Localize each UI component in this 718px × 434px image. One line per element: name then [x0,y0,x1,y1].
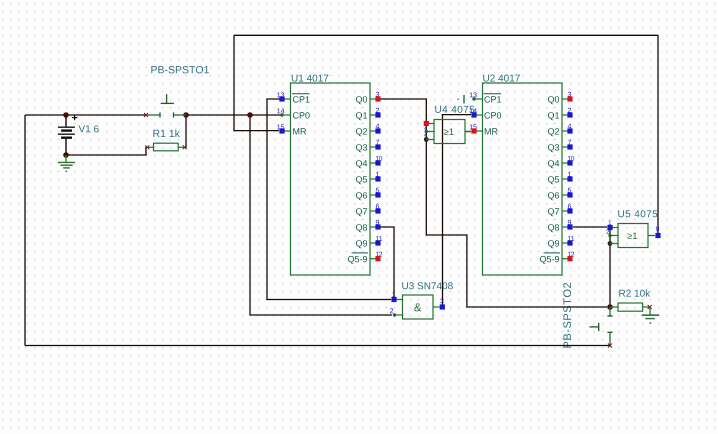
U1 pin number 11 [376,236,382,241]
wire left rail [24,115,26,346]
U1 pin name Q5 [356,176,367,184]
junction R2 / PB2 node [607,304,613,310]
U1 pin 6 state square [375,208,380,213]
U2 pin 7 Q3 stub [562,146,568,148]
wire CP1 U1 to U3 pin1 [267,99,391,300]
ground GND2 [642,307,660,324]
U1 pin 14 tip dot [280,113,283,116]
label U3 SN7408 [402,282,452,289]
U1 pin 1 Q5 stub [370,178,376,180]
U3 pin number 3 [440,298,443,303]
junction node A on rail [247,112,253,118]
U5 pin number 9 [656,226,659,231]
U2 pin 10 Q4 stub [562,162,568,164]
U2 pin 10 state square [567,160,572,165]
U1 pin 15 MR stub [282,130,291,132]
U1 pin name Q6 [356,192,367,200]
U1 pin name CP0 [293,112,310,118]
label V1 6 [79,125,99,132]
U2 pin 15 state square [471,128,476,133]
wire U3 output to CP0 U2 [443,115,472,305]
U2 pin number 9 [568,220,571,225]
wire U5 input chain down to R2 node [609,228,611,308]
U2 pin 2 Q1 stub [562,114,568,116]
label U2 4017 [483,75,520,82]
label R2 10k [619,289,650,296]
junction U4 input 3 [424,137,429,142]
U5 pin 1 state square [607,225,612,230]
U2 pin name Q1 [548,112,559,120]
U1 pin 10 state square [375,160,380,165]
label U5 4075 [618,210,657,217]
U1 pin 2 state square [375,112,380,117]
battery V1 [58,115,77,155]
U2 pin name Q8 [548,224,559,232]
label U4 4075 [435,106,474,113]
U2 pin 6 Q7 stub [562,210,568,212]
U2 pin number 13 [470,92,477,97]
label U1 4017 [292,75,329,82]
U2 pin 4 state square [567,128,572,133]
wire switch PB1 to CP0 U1 [186,114,281,116]
U1 pin 13 CP1 stub [282,98,291,100]
U1 pin 2 Q1 stub [370,114,376,116]
label R1 1k [153,129,180,137]
label PB-SPSTO1 [151,66,209,73]
U2 pin number 5 [568,188,571,193]
U2 pin name Q5 [548,176,559,184]
U1 pin 15 state square [279,128,284,133]
U1 pin name CP1 [292,94,310,103]
U1 pin name Q4 [356,160,367,168]
U5 pin number 2 [606,230,609,234]
IC U2 4017 body [483,83,563,275]
U1 pin 14 CP0 stub [282,114,291,116]
U1 pin number 6 [376,204,379,209]
U1 pin 6 Q7 stub [370,210,376,212]
U2 pin 11 state square [567,240,572,245]
U2 pin 7 state square [567,144,572,149]
wire Q8 U1 down to U3 pin1 [380,227,394,297]
U2 pin name CP0 [484,112,501,118]
U1 pin number 4 [376,124,380,129]
U1 pin number 5 [376,188,379,193]
junction U5 input 3 [608,241,613,246]
U2 pin 5 Q6 stub [562,194,568,196]
U3 pin number 1 [392,292,395,297]
U1 pin number 15 [277,124,284,129]
U3 pin 3 state square [440,304,445,309]
wire R1 to switch node [185,115,186,148]
U2 pin number 14 [470,108,477,113]
U2 pin number 12 [568,252,574,257]
U2 pin name Q4 [548,160,559,168]
wire node A to U3 pin2 [250,115,392,315]
U1 pin name MR [293,128,306,134]
ground GND1 [58,155,75,172]
U2 pin 11 Q9 stub [562,242,568,244]
U1 pin number 10 [376,156,382,161]
U1 pin 12 state square [375,256,380,261]
U2 pin number 7 [568,140,571,145]
U1 pin number 13 [277,92,284,97]
wire Q8 U2 to U5 input [573,226,607,228]
wire left rail to switch PB1 [25,114,146,116]
U2 pin name Q5-9 [540,253,560,264]
U1 pin 3 Q0 stub [370,98,376,100]
U1 pin 5 state square [375,192,380,197]
U2 pin name Q6 [548,192,559,200]
U2 pin number 11 [568,236,574,241]
junction switch PB1 / R1 riser [183,112,189,118]
U1 pin 9 state square [375,224,380,229]
U1 pin 11 state square [375,240,380,245]
U3 pin 1 state square [391,297,396,302]
resistor R2 [610,303,652,311]
switch PB-SPSTO1 [144,94,186,117]
U2 pin number 10 [568,156,574,161]
or-gate U4 4075 body [426,120,470,144]
resistor R1 [145,143,186,151]
U2 pin 4 Q2 stub [562,130,568,132]
U3 pin 2 tip dot [393,313,396,316]
U2 pin 13 open marker [457,95,464,103]
U2 pin number 2 [568,108,571,113]
U1 pin 1 state square [375,176,380,181]
U2 pin 1 Q5 stub [562,178,568,180]
U1 pin 11 Q9 stub [370,242,376,244]
U2 pin 13 CP1 stub [474,98,482,100]
junction battery minus / ground [63,152,69,158]
U1 pin name Q2 [356,128,367,136]
U2 pin 12 state square [567,256,572,261]
U1 pin name Q1 [356,112,367,120]
wire U4 output to MR U2 [465,131,471,133]
U1 pin 7 Q3 stub [370,146,376,148]
U1 pin name Q5-9 [348,253,368,264]
U2 pin 6 state square [567,208,572,213]
U2 pin number 6 [568,204,571,209]
U2 pin 1 state square [567,176,572,181]
U1 pin number 14 [277,108,284,113]
U2 pin number 15 [470,124,477,129]
U4 pin number 4 [424,126,427,130]
U4 pin 4 tip dot [425,130,428,133]
label PB-SPSTO2 [563,283,571,348]
U2 pin 13 tip dot [472,97,475,100]
U2 pin number 1 [568,172,571,177]
U4 pin number 5 [424,134,427,138]
U1 pin 12 Q5-9 stub [370,258,376,260]
U1 pin 4 state square [375,128,380,133]
U1 pin name Q8 [356,224,367,232]
wire U5 output riser to top bus [657,35,659,233]
U2 pin 5 state square [567,192,572,197]
U5 pin number 1 [609,220,612,224]
U2 pin 3 Q0 stub [562,98,568,100]
U2 pin 14 state square [471,112,476,117]
U1 pin 3 state square [375,96,380,101]
IC U1 4017 body [291,83,371,275]
U2 pin name CP1 [484,94,502,103]
U1 pin 13 state square [279,96,284,101]
U1 pin name Q0 [356,96,367,104]
U5 pin 2 tip dot [608,234,611,237]
U1 pin 10 Q4 stub [370,162,376,164]
U1 pin number 7 [376,140,379,145]
U2 pin number 3 [568,92,571,97]
U5 pin 9 state square [655,233,660,238]
or-gate U5 4075 body [610,224,655,248]
wire Q0 U1 to U4 inputs [380,99,426,140]
wire battery minus to R1 [66,147,148,155]
U2 pin name Q2 [548,128,559,136]
U4 pin 3 state square [424,121,429,126]
U2 pin name MR [485,128,498,134]
switch PB-SPSTO2 [590,307,613,348]
U2 pin 14 CP0 stub [474,114,482,116]
U1 pin number 1 [376,172,379,177]
U2 pin 15 MR stub [474,130,482,132]
U2 pin name Q0 [548,96,559,104]
U1 pin number 2 [376,108,379,113]
U2 pin 12 Q5-9 stub [562,258,568,260]
U2 pin 9 state square [567,224,572,229]
and-gate U3 SN7408 body [394,295,440,319]
U1 pin 5 Q6 stub [370,194,376,196]
U2 pin 9 Q8 stub [562,226,568,228]
wire U4 inputs to R2 node [426,140,607,308]
U3 pin number 2 [390,308,393,313]
U1 pin 4 Q2 stub [370,130,376,132]
U2 pin number 4 [568,124,572,129]
U2 pin 3 state square [567,96,572,101]
U1 pin number 9 [376,220,379,225]
wire top bus [234,34,658,36]
wire bottom rail [25,345,610,347]
U1 pin name Q7 [356,208,367,216]
U1 pin number 12 [376,252,382,257]
U1 pin 9 Q8 stub [370,226,376,228]
U2 pin name Q7 [548,208,559,216]
U2 pin name Q3 [548,144,559,152]
wire top bus left drop to MR U1 [234,35,279,130]
U2 pin name Q9 [548,240,559,248]
junction battery plus / rail [63,112,69,118]
U1 pin name Q9 [356,240,367,248]
U1 pin 7 state square [375,144,380,149]
U2 pin 2 state square [567,112,572,117]
U1 pin number 3 [376,92,379,97]
U1 pin name Q3 [356,144,367,152]
